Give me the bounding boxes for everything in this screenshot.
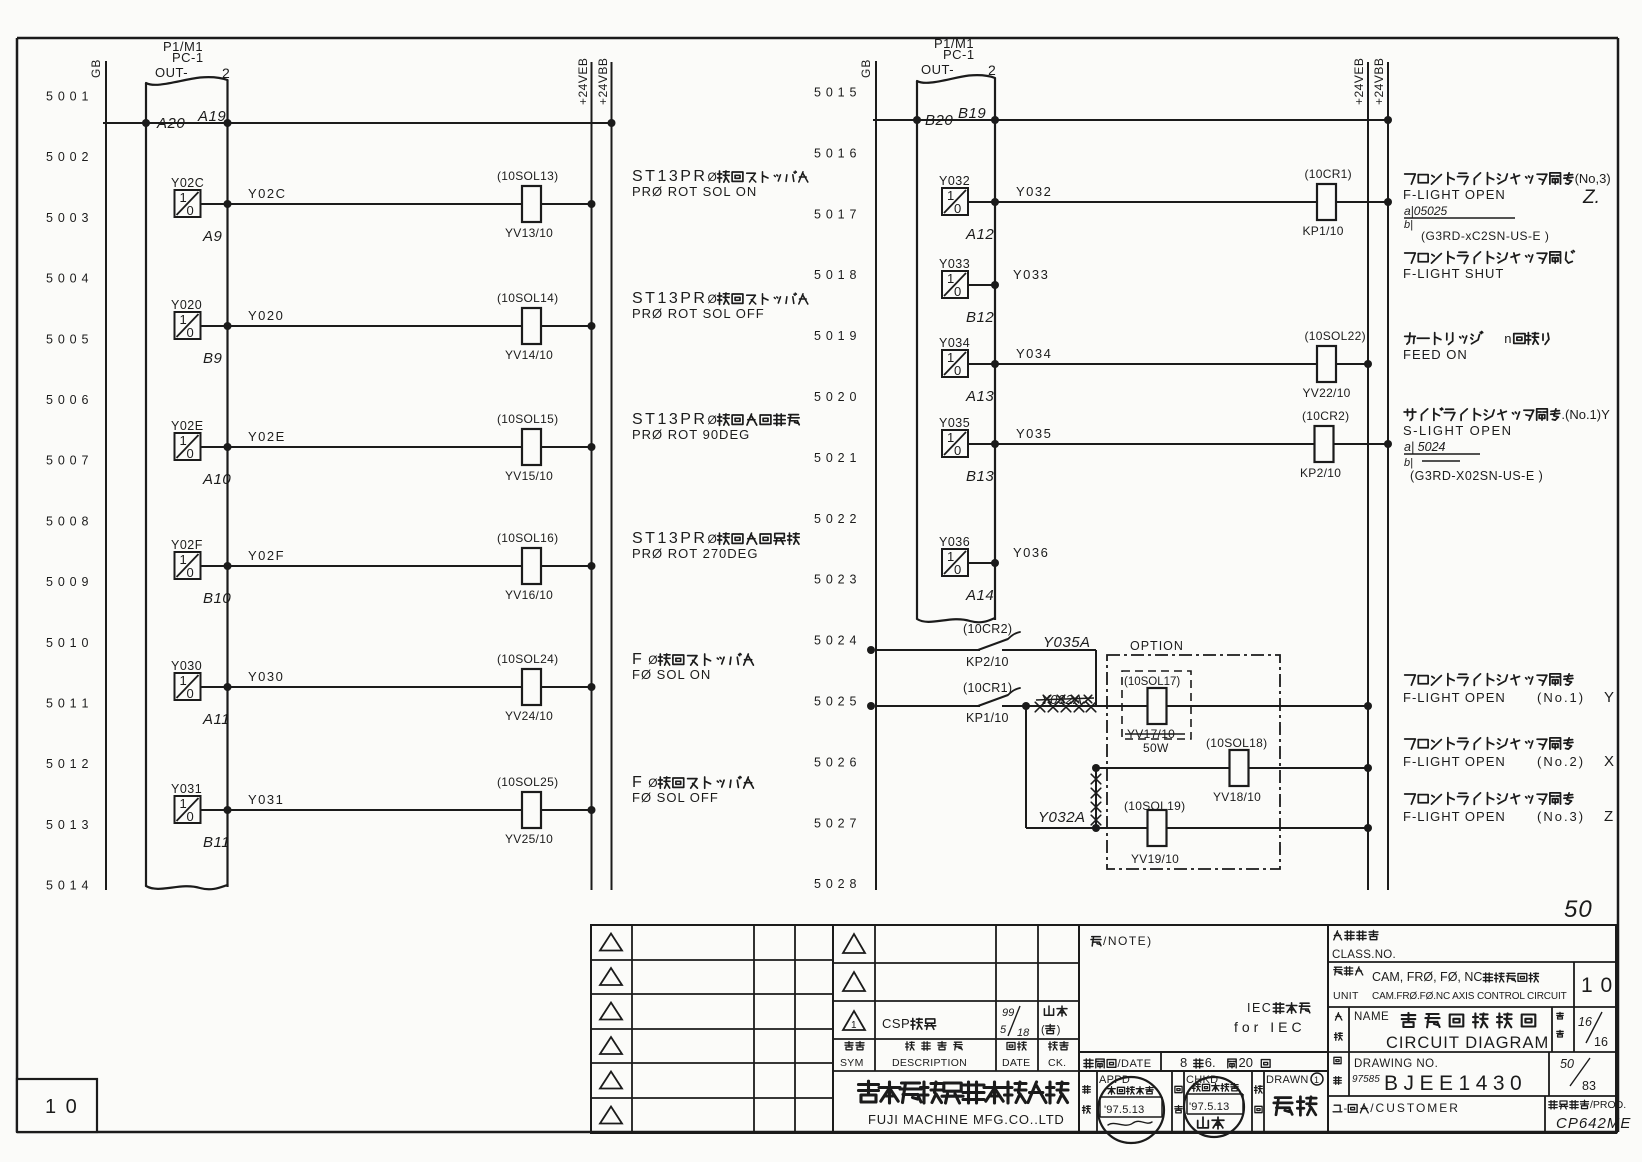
svg-text:F-LIGHT OPEN: F-LIGHT OPEN <box>1403 754 1506 769</box>
junction Y035/module bus <box>991 440 999 448</box>
line number 5026 <box>814 755 857 769</box>
wire rung 5026 <box>1092 764 1368 772</box>
junction rung5026/+24VEB <box>1364 764 1372 772</box>
svg-text:YV19/10: YV19/10 <box>1131 852 1179 866</box>
svg-text:Y034: Y034 <box>939 336 970 350</box>
output point Y020 of module U1 <box>171 298 202 340</box>
svg-text:F-LIGHT OPEN: F-LIGHT OPEN <box>1403 690 1506 705</box>
wire Y032A vertical branch <box>1026 706 1086 828</box>
svg-text:F-LIGHT SHUT: F-LIGHT SHUT <box>1403 266 1504 281</box>
line number 5001 <box>46 90 89 104</box>
svg-text:/PROD.: /PROD. <box>1590 1099 1626 1111</box>
svg-text:Y033: Y033 <box>939 257 970 271</box>
svg-text:5 0 1 0: 5 0 1 0 <box>46 636 89 650</box>
svg-text:YV18/10: YV18/10 <box>1213 790 1261 804</box>
svg-text:CLASS.NO.: CLASS.NO. <box>1332 949 1396 961</box>
line number 5004 <box>46 272 89 286</box>
svg-text:ST13PR: ST13PR <box>632 168 707 185</box>
line number 5019 <box>814 329 857 343</box>
class no row <box>1332 931 1396 962</box>
svg-text:(No.2): (No.2) <box>1537 754 1585 769</box>
svg-text:Y035: Y035 <box>939 416 970 430</box>
output point Y02E of module U1 <box>171 419 204 461</box>
line number 5011 <box>46 697 89 711</box>
svg-text:B19: B19 <box>958 105 986 122</box>
power rail +24VBB (right) <box>1372 58 1388 890</box>
solenoid coil YV22/10 (10SOL22) <box>1303 329 1369 400</box>
output point Y035 of module U2 <box>939 416 970 458</box>
line number 5015 <box>814 86 857 100</box>
svg-text:5 0 0 9: 5 0 0 9 <box>46 575 89 589</box>
svg-text:B10: B10 <box>203 590 231 607</box>
svg-text:FUJI MACHINE MFG.CO..LTD: FUJI MACHINE MFG.CO..LTD <box>868 1112 1065 1127</box>
junction Y031/module bus <box>224 806 232 814</box>
svg-text:5 0 2 8: 5 0 2 8 <box>814 877 857 891</box>
svg-text:5 0 2 6: 5 0 2 6 <box>814 755 857 769</box>
svg-text:Y034: Y034 <box>1016 346 1052 361</box>
line number 5009 <box>46 575 89 589</box>
description F-LIGHT OPEN (No.1)Y (rung 5025) <box>1403 674 1614 706</box>
svg-text:Y02F: Y02F <box>248 548 285 563</box>
svg-text:(G3RD-xC2SN-US-E ): (G3RD-xC2SN-US-E ) <box>1421 229 1549 243</box>
svg-text:Y036: Y036 <box>939 535 970 549</box>
wire rung 5001 power bus (left) <box>103 122 612 124</box>
svg-text:A12: A12 <box>965 226 994 243</box>
svg-text:SYM: SYM <box>840 1057 864 1069</box>
svg-text:'97.5.13: '97.5.13 <box>1189 1101 1229 1113</box>
svg-text:Y020: Y020 <box>248 308 284 323</box>
svg-text:FØ SOL OFF: FØ SOL OFF <box>632 790 719 805</box>
net GB bus (right) <box>859 59 876 890</box>
svg-text:DRAWN: DRAWN <box>1266 1074 1309 1086</box>
svg-text:(10CR2): (10CR2) <box>1302 409 1349 423</box>
svg-text:0: 0 <box>187 686 194 701</box>
svg-text:(10SOL22): (10SOL22) <box>1305 329 1366 343</box>
svg-text:5 0 0 4: 5 0 0 4 <box>46 272 89 286</box>
svg-text:Y033: Y033 <box>1013 267 1049 282</box>
svg-text:5 0 2 0: 5 0 2 0 <box>814 390 857 404</box>
svg-text:1 0: 1 0 <box>45 1096 79 1118</box>
svg-text:ST13PR: ST13PR <box>632 530 707 547</box>
svg-text:0: 0 <box>954 201 961 216</box>
junction Y034/module bus <box>991 360 999 368</box>
svg-text:B13: B13 <box>966 468 994 485</box>
svg-text:5 0 0 5: 5 0 0 5 <box>46 332 89 346</box>
description label for rung at y=326 (left) <box>632 290 808 321</box>
svg-text:5 0 2 7: 5 0 2 7 <box>814 816 857 830</box>
svg-text:PRØ ROT SOL OFF: PRØ ROT SOL OFF <box>632 306 765 321</box>
contact KP1/10 (10CR1) labels <box>963 681 1012 725</box>
svg-text:5 0 1 7: 5 0 1 7 <box>814 207 857 221</box>
svg-text:16: 16 <box>1594 1035 1608 1049</box>
output point Y02C of module U1 <box>171 176 204 218</box>
svg-text:(10SOL17): (10SOL17) <box>1124 676 1180 688</box>
svg-text:DATE: DATE <box>1002 1057 1030 1069</box>
svg-text:0: 0 <box>954 562 961 577</box>
svg-text:PRØ ROT 270DEG: PRØ ROT 270DEG <box>632 546 758 561</box>
svg-text:83: 83 <box>1582 1079 1596 1093</box>
revision row: CSP correspondence <box>882 1006 1067 1039</box>
svg-text:GB: GB <box>89 59 103 78</box>
line number 5016 <box>814 146 857 160</box>
svg-text:CIRCUIT DIAGRAM: CIRCUIT DIAGRAM <box>1386 1034 1549 1052</box>
svg-text:CAM, FRØ, FØ, NC: CAM, FRØ, FØ, NC <box>1372 970 1482 984</box>
svg-text:A13: A13 <box>965 388 994 405</box>
svg-text:X: X <box>1604 753 1614 770</box>
wire rung 5027 <box>1026 824 1368 832</box>
svg-text:A11: A11 <box>202 711 230 728</box>
junction KP1/10/rail <box>1384 198 1392 206</box>
drawing no row: BJEE1430 <box>1334 1052 1596 1096</box>
description S-LIGHT OPEN No.1 (rung 5021) <box>1403 407 1610 483</box>
svg-text:99: 99 <box>1002 1007 1014 1019</box>
svg-text:50: 50 <box>1560 1057 1574 1071</box>
svg-text:0: 0 <box>954 443 961 458</box>
line number 5010 <box>46 636 89 650</box>
junction rung5001/+24VBB <box>608 119 616 127</box>
svg-text:(10SOL14): (10SOL14) <box>497 291 558 305</box>
node A20 (left module pin) <box>142 115 185 132</box>
junction rung5015/+24VBB <box>1384 116 1392 124</box>
junction YV22/10/rail <box>1364 360 1372 368</box>
svg-text:0: 0 <box>187 446 194 461</box>
svg-text:KP1/10: KP1/10 <box>966 711 1009 725</box>
svg-text:CAM.FRØ.FØ.NC AXIS CONTROL CIR: CAM.FRØ.FØ.NC AXIS CONTROL CIRCUIT <box>1372 991 1567 1002</box>
svg-text:F-LIGHT OPEN: F-LIGHT OPEN <box>1403 809 1506 824</box>
solenoid coil YV17/10 (10SOL17) 50W <box>1122 671 1191 755</box>
solenoid coil YV19/10 (10SOL19) <box>1124 799 1185 866</box>
wire Y02C rung <box>201 186 523 204</box>
svg-text:50W: 50W <box>1143 741 1169 755</box>
check stamp CHKD <box>1184 1077 1244 1137</box>
node A19 (left module pin) <box>197 108 232 127</box>
svg-text:F: F <box>632 651 643 668</box>
line number 5006 <box>46 393 89 407</box>
junction YV13/10/+24VEB <box>588 200 596 208</box>
approval stamp APPD <box>1098 1077 1164 1143</box>
svg-text:Ø: Ø <box>708 292 717 306</box>
description label for rung at y=687 (left) <box>632 651 753 682</box>
pin A10 <box>202 471 231 488</box>
junction YV14/10/+24VEB <box>588 322 596 330</box>
pin A14 <box>965 587 994 604</box>
svg-text:2: 2 <box>988 62 996 78</box>
svg-text:Ø: Ø <box>708 413 717 427</box>
svg-text:(10SOL25): (10SOL25) <box>497 775 558 789</box>
unit row <box>1333 962 1613 1007</box>
svg-text:5 0 2 2: 5 0 2 2 <box>814 512 857 526</box>
description F-LIGHT OPEN (No.2)X (rung 5026) <box>1403 738 1614 770</box>
line number 5005 <box>46 332 89 346</box>
svg-text:(10SOL15): (10SOL15) <box>497 412 558 426</box>
svg-text:5 0 0 2: 5 0 0 2 <box>46 150 89 164</box>
pin A11 <box>202 711 230 728</box>
svg-text:Y030: Y030 <box>248 669 284 684</box>
svg-text:0: 0 <box>187 809 194 824</box>
svg-text:A20: A20 <box>156 115 185 132</box>
svg-text:5 0 0 6: 5 0 0 6 <box>46 393 89 407</box>
junction Y02C/module bus <box>224 200 232 208</box>
svg-text:b|: b| <box>1404 219 1413 231</box>
svg-text:5 0 2 1: 5 0 2 1 <box>814 451 857 465</box>
junction Y02E/module bus <box>224 443 232 451</box>
svg-text:(No,3): (No,3) <box>1575 171 1611 186</box>
svg-text:0: 0 <box>187 203 194 218</box>
output point Y033 of module U2 <box>939 257 970 299</box>
junction Y033/module bus <box>991 281 999 289</box>
pin B12 <box>966 309 994 326</box>
svg-text:Y: Y <box>1604 689 1614 706</box>
company name FUJI MACHINE MFG <box>859 1081 1069 1127</box>
title block: revision table B <box>833 925 1079 1133</box>
date row <box>1079 1052 1328 1071</box>
junction rung5025/Y032A branch <box>1022 702 1030 710</box>
line number 5027 <box>814 816 857 830</box>
svg-text:B9: B9 <box>203 350 223 367</box>
svg-text:6.: 6. <box>1205 1055 1216 1070</box>
net GB bus (left) <box>89 59 106 890</box>
junction KP2/10/rail <box>1384 440 1392 448</box>
svg-text:Y032: Y032 <box>939 174 970 188</box>
svg-text:FØ SOL ON: FØ SOL ON <box>632 667 711 682</box>
svg-text:5 0 0 7: 5 0 0 7 <box>46 454 89 468</box>
svg-text:50: 50 <box>1564 896 1593 923</box>
wire Y020 rung <box>201 308 523 326</box>
junction Y036/module bus <box>991 559 999 567</box>
svg-text:+24VBB: +24VBB <box>596 58 610 105</box>
svg-text:F: F <box>632 774 643 791</box>
svg-text:CSP: CSP <box>882 1016 910 1031</box>
svg-text:0: 0 <box>187 565 194 580</box>
description F-LIGHT OPEN No.3 (rung 5017) <box>1403 171 1611 243</box>
svg-text:FEED ON: FEED ON <box>1403 347 1468 362</box>
wire rung 5024 (Y035A) <box>867 632 1096 706</box>
svg-text:OUT-: OUT- <box>155 65 188 80</box>
title block: revision table A <box>591 925 833 1133</box>
svg-text:B20: B20 <box>925 112 953 129</box>
svg-text:Y02F: Y02F <box>171 538 203 552</box>
svg-text:F-LIGHT OPEN: F-LIGHT OPEN <box>1403 187 1506 202</box>
svg-text:5: 5 <box>1000 1024 1007 1036</box>
svg-text:8: 8 <box>1180 1055 1188 1070</box>
line number 5007 <box>46 454 89 468</box>
svg-text:KP1/10: KP1/10 <box>1303 224 1344 238</box>
junction YV24/10/+24VEB <box>588 683 596 691</box>
junction Y030/module bus <box>224 683 232 691</box>
junction YV16/10/+24VEB <box>588 562 596 570</box>
pin A12 <box>965 226 994 243</box>
svg-text:1: 1 <box>851 1020 857 1031</box>
solenoid coil YV14/10 (10SOL14) <box>497 291 592 362</box>
svg-text:+24VEB: +24VEB <box>1352 58 1366 105</box>
svg-text:5 0 1 5: 5 0 1 5 <box>814 86 857 100</box>
svg-text:A10: A10 <box>202 471 231 488</box>
svg-text:(No.1): (No.1) <box>1537 690 1585 705</box>
svg-text:a|05025: a|05025 <box>1404 204 1447 218</box>
description label for rung at y=204 (left) <box>632 168 808 199</box>
svg-text:YV22/10: YV22/10 <box>1303 386 1351 400</box>
svg-text:5 0 1 6: 5 0 1 6 <box>814 146 857 160</box>
svg-text:UNIT: UNIT <box>1333 990 1359 1002</box>
relay coil KP1/10 (10CR1) <box>1303 167 1389 238</box>
pin B10 <box>203 590 231 607</box>
svg-text:n: n <box>1504 331 1512 346</box>
page number box 10 <box>17 1079 97 1132</box>
svg-text:Y030: Y030 <box>171 659 202 673</box>
svg-text:Z: Z <box>1604 808 1613 825</box>
svg-text:Ø: Ø <box>648 653 657 667</box>
svg-text:Y020: Y020 <box>171 298 202 312</box>
line number 5025 <box>814 695 857 709</box>
approval stamp row <box>1079 1071 1328 1133</box>
power rail +24VBB (left) <box>596 58 612 890</box>
solenoid coil YV15/10 (10SOL15) <box>497 412 592 483</box>
description label for rung at y=810 (left) <box>632 774 753 805</box>
node B19 (right module pin) <box>958 105 999 124</box>
junction YV25/10/+24VEB <box>588 806 596 814</box>
line number 5014 <box>46 879 89 893</box>
svg-text:(No.3): (No.3) <box>1537 809 1585 824</box>
line number 5013 <box>46 818 89 832</box>
svg-text:IEC: IEC <box>1247 1001 1272 1015</box>
svg-text:Y032A: Y032A <box>1038 809 1086 826</box>
revision table headers <box>840 1042 1068 1070</box>
junction Y020/module bus <box>224 322 232 330</box>
OPTION enclosure box <box>1107 639 1280 869</box>
svg-text:16: 16 <box>1578 1015 1592 1029</box>
svg-text:(10CR2): (10CR2) <box>963 622 1012 636</box>
solenoid coil YV24/10 (10SOL24) <box>497 652 592 723</box>
solenoid coil YV16/10 (10SOL16) <box>497 531 592 602</box>
pin B9 <box>203 350 223 367</box>
svg-text:OPTION: OPTION <box>1130 639 1184 653</box>
svg-text:Y031: Y031 <box>248 792 284 807</box>
handwritten sheet mark 50 <box>1564 896 1593 923</box>
info table right <box>1328 925 1616 1133</box>
svg-text:(10SOL18): (10SOL18) <box>1206 736 1267 750</box>
svg-text:5 0 1 4: 5 0 1 4 <box>46 879 89 893</box>
svg-text:B12: B12 <box>966 309 994 326</box>
svg-text:Y035A: Y035A <box>1043 634 1091 651</box>
solenoid coil YV25/10 (10SOL25) <box>497 775 592 846</box>
crossed-out net label Y032A on rung 5025 <box>1035 692 1096 712</box>
svg-text:5 0 1 2: 5 0 1 2 <box>46 757 89 771</box>
svg-text:Y02E: Y02E <box>248 429 286 444</box>
svg-text:A14: A14 <box>965 587 994 604</box>
svg-text:DESCRIPTION: DESCRIPTION <box>892 1057 967 1069</box>
svg-text:a| 5024: a| 5024 <box>1404 440 1446 454</box>
contact KP2/10 (10CR2) labels <box>963 622 1091 669</box>
svg-text:Y02C: Y02C <box>248 186 287 201</box>
svg-text:5 0 1 9: 5 0 1 9 <box>814 329 857 343</box>
svg-text:Y02C: Y02C <box>171 176 204 190</box>
svg-text:CP642ME: CP642ME <box>1556 1115 1631 1132</box>
power rail +24VEB (right) <box>1352 58 1368 890</box>
description label for rung at y=447 (left) <box>632 411 799 442</box>
svg-text:Y031: Y031 <box>171 782 202 796</box>
svg-text:Y032: Y032 <box>1016 184 1052 199</box>
name row: CIRCUIT DIAGRAM <box>1335 1007 1608 1052</box>
svg-text:YV15/10: YV15/10 <box>505 469 553 483</box>
svg-text:OUT-: OUT- <box>921 62 954 77</box>
description F-LIGHT OPEN (No.3)Z (rung 5027) <box>1403 793 1613 825</box>
line number 5022 <box>814 512 857 526</box>
svg-text:APPD: APPD <box>1099 1074 1130 1086</box>
svg-text:Y036: Y036 <box>1013 545 1049 560</box>
wire Y031 rung <box>201 792 523 810</box>
output point Y034 of module U2 <box>939 336 970 378</box>
svg-text:Ø: Ø <box>708 532 717 546</box>
svg-text:PRØ ROT SOL ON: PRØ ROT SOL ON <box>632 184 757 199</box>
junction rung5027/+24VEB <box>1364 824 1372 832</box>
svg-text:0: 0 <box>954 363 961 378</box>
wire Y035 rung <box>968 426 1315 444</box>
junction YV15/10/+24VEB <box>588 443 596 451</box>
svg-text:GB: GB <box>859 59 873 78</box>
wire Y02E rung <box>201 429 523 447</box>
svg-text:for IEC: for IEC <box>1234 1019 1306 1035</box>
svg-text:Y02E: Y02E <box>171 419 204 433</box>
node B20 (right module pin) <box>913 112 953 129</box>
svg-text:B11: B11 <box>203 834 230 851</box>
svg-text:-: - <box>1344 1103 1348 1115</box>
line number 5021 <box>814 451 857 465</box>
pin B11 <box>203 834 230 851</box>
svg-text:ST13PR: ST13PR <box>632 411 707 428</box>
svg-text:97585: 97585 <box>1352 1074 1380 1085</box>
line number 5002 <box>46 150 89 164</box>
svg-text:CK.: CK. <box>1048 1057 1066 1069</box>
svg-text:DRAWING NO.: DRAWING NO. <box>1354 1058 1438 1070</box>
svg-text:PRØ ROT 90DEG: PRØ ROT 90DEG <box>632 427 750 442</box>
svg-text:YV24/10: YV24/10 <box>505 709 553 723</box>
wire Y033 stub <box>968 267 1049 285</box>
PLC output module U2 P1/M1 PC-1 OUT-2 (right) <box>917 36 996 622</box>
svg-text:(10SOL24): (10SOL24) <box>497 652 558 666</box>
PLC output module U1 P1/M1 PC-1 OUT-2 (left) <box>146 39 230 889</box>
svg-text:YV16/10: YV16/10 <box>505 588 553 602</box>
svg-text:BJEE1430: BJEE1430 <box>1384 1072 1527 1095</box>
svg-text:/DATE: /DATE <box>1118 1058 1152 1070</box>
svg-text:(10CR1): (10CR1) <box>963 681 1012 695</box>
svg-text:0: 0 <box>954 284 961 299</box>
svg-text:Ø: Ø <box>648 776 657 790</box>
relay coil KP2/10 (10CR2) <box>1300 409 1388 480</box>
junction Y02F/module bus <box>224 562 232 570</box>
line number 5012 <box>46 757 89 771</box>
line number 5020 <box>814 390 857 404</box>
svg-text:KP2/10: KP2/10 <box>966 655 1009 669</box>
description FEED ON (rung 5019) <box>1403 331 1549 362</box>
svg-text:A9: A9 <box>202 228 223 245</box>
line number 5023 <box>814 573 857 587</box>
wire Y036 stub <box>968 545 1049 563</box>
svg-text:18: 18 <box>1017 1027 1030 1039</box>
line number 5003 <box>46 211 89 225</box>
svg-text:1: 1 <box>1314 1075 1319 1085</box>
pin A13 <box>965 388 994 405</box>
junction Y032/module bus <box>991 198 999 206</box>
note box <box>1079 925 1328 1052</box>
line number 5028 <box>814 877 857 891</box>
svg-text:+24VBB: +24VBB <box>1372 58 1386 105</box>
svg-text:0: 0 <box>187 325 194 340</box>
svg-text:YV25/10: YV25/10 <box>505 832 553 846</box>
svg-text:.(No.1)Y: .(No.1)Y <box>1561 407 1610 422</box>
svg-text:NAME: NAME <box>1354 1011 1389 1023</box>
output point Y032 of module U2 <box>939 174 970 216</box>
svg-text:5 0 1 1: 5 0 1 1 <box>46 697 89 711</box>
